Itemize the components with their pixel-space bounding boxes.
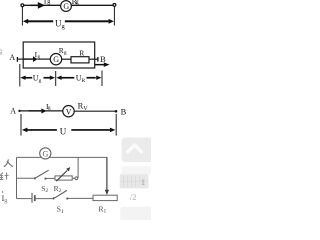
widget page input box — [120, 174, 149, 188]
dimension arrow U — [22, 128, 116, 133]
wire — [18, 58, 25, 60]
rheostat R2 arrow — [56, 170, 67, 181]
wire — [68, 197, 93, 199]
wire current arrow I_g — [31, 2, 46, 9]
svg-text:V: V — [66, 107, 72, 116]
box (equivalent voltmeter outline) — [23, 42, 95, 68]
hanzi 针 (cut text) — [0, 173, 9, 180]
wire — [36, 198, 53, 200]
resistor R (series) — [71, 57, 89, 63]
op: galvanometer G1 — [61, 1, 72, 12]
wire top — [17, 156, 108, 158]
node terminal at A — [18, 110, 20, 112]
node right terminal (open circle) — [113, 4, 116, 7]
svg-text:1: 1 — [141, 177, 145, 187]
tick left — [20, 114, 22, 136]
svg-text:U: U — [60, 127, 67, 137]
wire — [89, 58, 98, 60]
svg-text:g: g — [47, 0, 50, 5]
dimension arrow U_g — [23, 19, 114, 24]
svg-text:B: B — [100, 54, 106, 64]
svg-text:G: G — [63, 2, 69, 11]
tick left — [19, 64, 21, 87]
switch S1 left dot — [53, 197, 55, 199]
current out arrow at B — [95, 62, 110, 67]
node terminal at A — [16, 57, 18, 62]
node junction dot — [75, 177, 78, 180]
wire — [72, 4, 114, 6]
switch S2 lever — [35, 170, 48, 178]
cut text fragment (left margin, mid) — [0, 50, 2, 55]
switch S1 lever — [54, 190, 67, 198]
svg-text:g: g — [48, 105, 51, 111]
switch S2 pivot dot — [34, 177, 36, 179]
svg-text:B: B — [121, 106, 127, 116]
svg-text:G: G — [43, 149, 49, 158]
widget back-to-top button — [122, 138, 152, 163]
widget faint band — [122, 166, 152, 174]
wire — [37, 58, 50, 60]
battery short plate — [34, 195, 36, 201]
switch S2 right dot — [44, 178, 46, 180]
wire current arrow — [29, 108, 47, 113]
tick right — [101, 71, 103, 87]
wire bottom — [17, 198, 32, 200]
rheostat R2 box — [55, 176, 72, 180]
widget bottom band — [120, 207, 151, 220]
node A-terminal (left open circle) — [21, 4, 24, 7]
tick left — [21, 7, 23, 26]
rheostat R1 box — [93, 195, 117, 200]
node terminal at B — [115, 110, 118, 113]
tick right — [113, 7, 115, 26]
wire — [72, 177, 75, 179]
wire — [24, 4, 61, 6]
wire junction vertical — [77, 157, 79, 178]
wire middle branch — [17, 177, 34, 179]
svg-text:G: G — [53, 55, 59, 64]
hanzi 入 (cut text) — [4, 160, 12, 167]
tick right — [115, 114, 117, 136]
wire — [74, 110, 115, 112]
wire — [62, 58, 71, 60]
cut text fragment (left margin, above I) — [2, 191, 4, 193]
op: galvanometer G2 — [50, 54, 61, 65]
svg-text:/2: /2 — [130, 192, 137, 202]
svg-text:A: A — [9, 53, 15, 62]
dimension arrow U_g — [20, 76, 55, 80]
slider arrow onto R1 — [106, 157, 108, 191]
wire — [47, 177, 56, 179]
wire — [21, 110, 63, 112]
svg-text:g: g — [76, 0, 79, 5]
wire current arrow I_g — [24, 56, 38, 62]
node terminal at B — [97, 57, 99, 62]
chevron up icon — [128, 145, 142, 152]
op: galvanometer G (grey) — [40, 148, 51, 159]
wire left vertical — [16, 157, 18, 198]
dimension arrow U_R — [56, 76, 101, 80]
svg-text:A: A — [10, 106, 16, 115]
switch S1 right dot — [66, 197, 68, 199]
tick middle — [55, 71, 57, 86]
op: voltmeter V — [63, 106, 74, 117]
svg-text:R: R — [79, 48, 84, 57]
battery long plate — [31, 193, 33, 203]
